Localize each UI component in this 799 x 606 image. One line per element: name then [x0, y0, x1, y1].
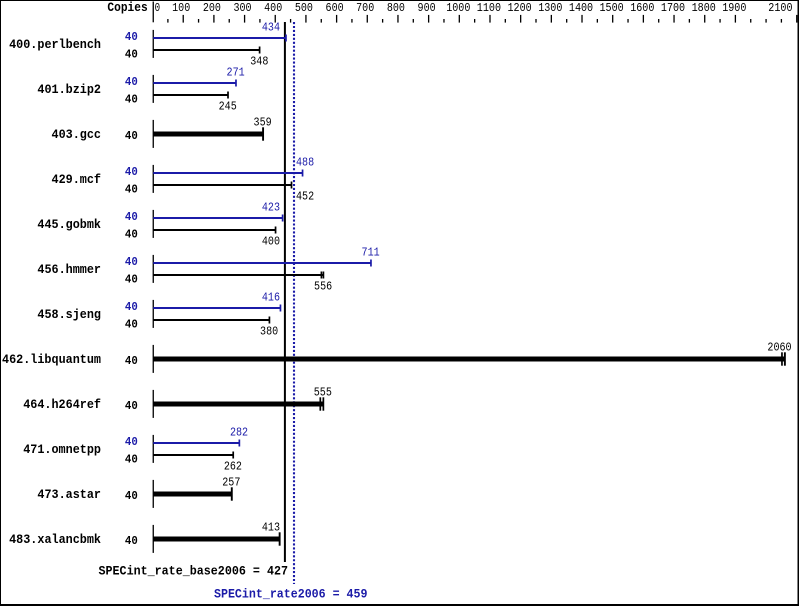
- axis scale labels: [155, 1, 793, 15]
- y-axis line: [153, 2, 154, 23]
- svg-text:1400: 1400: [569, 1, 593, 15]
- svg-text:1200: 1200: [508, 1, 532, 15]
- svg-text:40: 40: [125, 399, 138, 413]
- svg-text:413: 413: [262, 521, 280, 535]
- svg-text:2100: 2100: [768, 1, 792, 15]
- svg-text:282: 282: [230, 426, 248, 440]
- svg-text:40: 40: [125, 92, 138, 106]
- svg-text:380: 380: [260, 325, 278, 339]
- row 471.omnetpp: [23, 426, 248, 474]
- svg-text:400.perlbench: 400.perlbench: [9, 37, 101, 52]
- svg-text:429.mcf: 429.mcf: [52, 172, 102, 187]
- svg-text:40: 40: [125, 210, 138, 224]
- svg-text:40: 40: [125, 300, 138, 314]
- svg-text:483.xalancbmk: 483.xalancbmk: [9, 532, 101, 547]
- svg-text:500: 500: [295, 1, 313, 15]
- svg-text:40: 40: [125, 75, 138, 89]
- svg-text:1000: 1000: [446, 1, 470, 15]
- svg-text:1800: 1800: [692, 1, 716, 15]
- border frame: [0, 0, 799, 1]
- svg-text:462.libquantum: 462.libquantum: [2, 352, 101, 367]
- svg-text:257: 257: [222, 476, 240, 490]
- axis ticks: [167, 15, 797, 23]
- svg-text:SPECint_rate_base2006 = 427: SPECint_rate_base2006 = 427: [99, 563, 289, 578]
- svg-text:423: 423: [262, 201, 280, 215]
- svg-text:200: 200: [203, 1, 221, 15]
- svg-text:711: 711: [362, 246, 380, 260]
- svg-text:1100: 1100: [477, 1, 501, 15]
- svg-text:300: 300: [233, 1, 251, 15]
- svg-text:359: 359: [254, 116, 272, 130]
- svg-text:452: 452: [296, 190, 314, 204]
- row 403.gcc: [52, 116, 272, 148]
- svg-text:401.bzip2: 401.bzip2: [37, 82, 101, 97]
- svg-text:40: 40: [125, 272, 138, 286]
- svg-text:40: 40: [125, 489, 138, 503]
- svg-text:1700: 1700: [661, 1, 685, 15]
- svg-text:40: 40: [125, 435, 138, 449]
- svg-text:464.h264ref: 464.h264ref: [23, 397, 101, 412]
- row 445.gobmk: [37, 201, 283, 249]
- svg-text:40: 40: [125, 129, 138, 143]
- svg-text:1300: 1300: [538, 1, 562, 15]
- svg-text:40: 40: [125, 317, 138, 331]
- svg-text:2060: 2060: [767, 341, 791, 355]
- svg-text:40: 40: [125, 165, 138, 179]
- svg-text:471.omnetpp: 471.omnetpp: [23, 442, 101, 457]
- svg-text:434: 434: [262, 21, 280, 35]
- svg-text:400: 400: [262, 235, 280, 249]
- svg-text:245: 245: [219, 100, 237, 114]
- svg-text:416: 416: [262, 291, 280, 305]
- row 464.h264ref: [23, 386, 332, 418]
- svg-text:40: 40: [125, 47, 138, 61]
- row 473.astar: [37, 476, 240, 508]
- svg-text:40: 40: [125, 182, 138, 196]
- svg-text:600: 600: [326, 1, 344, 15]
- svg-text:0: 0: [155, 1, 161, 15]
- svg-text:473.astar: 473.astar: [37, 487, 101, 502]
- row 400.perlbench: [9, 21, 287, 69]
- svg-text:40: 40: [125, 452, 138, 466]
- svg-text:1900: 1900: [722, 1, 746, 15]
- svg-text:900: 900: [418, 1, 436, 15]
- svg-text:700: 700: [356, 1, 374, 15]
- svg-text:555: 555: [314, 386, 332, 400]
- row 429.mcf: [52, 156, 315, 204]
- svg-text:458.sjeng: 458.sjeng: [37, 307, 101, 322]
- row 458.sjeng: [37, 291, 281, 339]
- svg-text:400: 400: [264, 1, 282, 15]
- svg-text:456.hmmer: 456.hmmer: [37, 262, 101, 277]
- row 462.libquantum: [2, 341, 792, 373]
- svg-text:271: 271: [227, 66, 245, 80]
- svg-text:1500: 1500: [600, 1, 624, 15]
- svg-text:445.gobmk: 445.gobmk: [37, 217, 101, 232]
- row 401.bzip2: [37, 66, 244, 114]
- svg-text:800: 800: [387, 1, 405, 15]
- peak result dotted reference line (459): [293, 22, 295, 584]
- base result reference line (427): [284, 22, 286, 562]
- row 456.hmmer: [37, 246, 379, 294]
- svg-text:488: 488: [296, 156, 314, 170]
- svg-text:348: 348: [250, 55, 268, 69]
- svg-text:403.gcc: 403.gcc: [52, 127, 102, 142]
- row 483.xalancbmk: [9, 521, 280, 553]
- svg-text:40: 40: [125, 255, 138, 269]
- svg-text:Copies: Copies: [107, 1, 147, 15]
- svg-text:40: 40: [125, 227, 138, 241]
- svg-text:556: 556: [314, 280, 332, 294]
- svg-text:40: 40: [125, 30, 138, 44]
- svg-text:SPECint_rate2006 = 459: SPECint_rate2006 = 459: [214, 587, 368, 602]
- svg-text:40: 40: [125, 354, 138, 368]
- svg-text:40: 40: [125, 534, 138, 548]
- svg-text:262: 262: [224, 460, 242, 474]
- svg-text:1600: 1600: [630, 1, 654, 15]
- svg-text:100: 100: [172, 1, 190, 15]
